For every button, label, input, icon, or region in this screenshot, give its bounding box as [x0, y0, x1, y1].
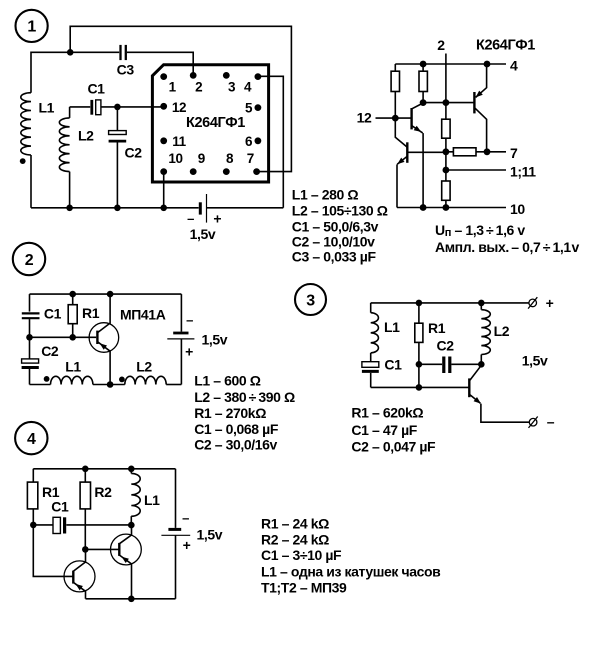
terminal plus c3	[529, 299, 537, 307]
resistor Ra (internal)	[391, 71, 399, 91]
svg-text:2: 2	[195, 79, 202, 94]
node R2 top c4	[82, 466, 89, 473]
inductor L2 bottom wire	[69, 172, 71, 208]
circuit 2 badge	[13, 243, 45, 275]
transistor T2 collector	[119, 525, 131, 544]
svg-text:L1 – 600 Ω: L1 – 600 Ω	[194, 373, 261, 389]
svg-text:+: +	[546, 295, 554, 311]
battery B1 positive plate	[206, 194, 208, 223]
battery c4 negative plate	[168, 528, 181, 531]
node C1 left c4	[30, 522, 37, 529]
bottom rail c2 mid	[93, 384, 125, 386]
capacitor C1 c3 hollow plate	[362, 362, 379, 368]
svg-text:2: 2	[25, 252, 34, 269]
svg-text:1: 1	[27, 19, 36, 36]
svg-text:3: 3	[228, 79, 236, 94]
svg-text:1,5v: 1,5v	[522, 353, 548, 369]
capacitor C1 hollow plate	[96, 100, 101, 115]
transistor T2 emitter	[119, 555, 131, 599]
wire base node Q1/Q3	[423, 102, 474, 104]
inductor L2	[59, 118, 69, 172]
capacitor C1 left wire	[70, 106, 91, 108]
bottom rail c2 right	[166, 384, 181, 386]
top rail c2	[30, 293, 182, 295]
svg-text:R1 – 270kΩ: R1 – 270kΩ	[194, 405, 266, 421]
transistor c3 base bar	[468, 378, 470, 397]
inductor L2 top wire	[69, 107, 71, 118]
capacitor C2 c2 top wire	[29, 337, 31, 359]
wire Q2 base lead	[407, 151, 446, 153]
node rail 1;11	[443, 167, 450, 174]
svg-text:C1 – 0,068 µF: C1 – 0,068 µF	[194, 421, 279, 437]
svg-text:L2: L2	[136, 359, 152, 375]
svg-text:К264ГФ1: К264ГФ1	[186, 115, 245, 131]
inductor L1 c3 top wire	[370, 303, 372, 313]
wire L1 to bottom rail	[30, 155, 32, 208]
base wire c2	[30, 336, 97, 338]
capacitor C3 left wire	[70, 51, 119, 53]
capacitor C2 c2 solid plate	[22, 366, 39, 369]
battery c4 top wire	[175, 469, 177, 528]
node rail7 center	[443, 148, 450, 155]
wire feedback: top node to pin 7	[70, 26, 291, 171]
svg-text:1;11: 1;11	[510, 163, 536, 179]
pin 12	[160, 103, 167, 110]
inductor L1 c2	[51, 376, 93, 384]
transistor T1 collector	[73, 549, 85, 571]
node bottom center	[443, 204, 450, 211]
wire L1 to C1 c3	[370, 353, 372, 362]
wire pin 12	[376, 117, 411, 119]
resistor R1 c2	[68, 305, 77, 324]
node left mid c2	[26, 334, 33, 341]
inductor L2 c3 bottom wire	[480, 355, 482, 365]
svg-text:R1 – 24 kΩ: R1 – 24 kΩ	[261, 516, 329, 532]
svg-text:C2: C2	[41, 343, 59, 359]
svg-text:–: –	[186, 313, 193, 328]
battery c4 positive plate	[161, 534, 190, 536]
node L2/C2/collector c3	[478, 361, 485, 368]
battery B1 negative plate	[199, 202, 202, 214]
capacitor C1 c2 bottom wire	[29, 319, 31, 337]
battery c2 positive plate	[167, 338, 194, 340]
wire pin 4 to bottom rail	[258, 76, 283, 208]
svg-text:R2 – 24 kΩ: R2 – 24 kΩ	[261, 532, 329, 548]
node R1 top c3	[416, 300, 423, 307]
inductor L2 c3 top wire	[480, 303, 482, 310]
svg-text:7: 7	[510, 145, 518, 161]
inductor L2 c3	[481, 310, 490, 355]
inductor L2 c2	[125, 376, 166, 384]
transistor Q3 base bar	[473, 92, 475, 113]
battery c2 bottom wire	[180, 339, 182, 385]
svg-text:3: 3	[306, 292, 315, 309]
transistor Q3 emitter (PNP)	[476, 64, 487, 97]
pin 2	[190, 72, 197, 79]
wire T2 base c4	[85, 548, 119, 550]
resistor R2 c4	[80, 482, 90, 509]
capacitor C1 c2 top wire	[29, 294, 31, 312]
inductor L1 c3	[371, 313, 379, 353]
capacitor C1 c4 right wire	[66, 524, 131, 526]
capacitor C1 solid plate	[90, 100, 93, 115]
transistor Q1 collector	[412, 103, 424, 109]
resistor Rc (internal)	[453, 148, 476, 156]
svg-text:4: 4	[27, 431, 36, 448]
inductor L1 c4 bottom wire	[130, 516, 132, 525]
pin 3	[223, 72, 230, 79]
svg-text:C3: C3	[117, 62, 135, 78]
svg-text:МП41А: МП41А	[120, 306, 166, 322]
terminal minus c3	[529, 418, 537, 426]
capacitor C1 c2 plates	[22, 312, 40, 314]
top rail c3	[371, 302, 529, 304]
inductor L1	[21, 93, 31, 155]
svg-text:C1: C1	[51, 498, 69, 514]
wire pin 2 vertical	[445, 54, 447, 103]
pin 8	[223, 168, 230, 175]
svg-text:C2 – 30,0/16v: C2 – 30,0/16v	[194, 437, 277, 453]
node L2 top c3	[478, 300, 485, 307]
node T2 emitter c4	[128, 596, 135, 603]
battery c2 top wire	[180, 294, 182, 332]
svg-text:C1 – 3÷10 µF: C1 – 3÷10 µF	[261, 547, 342, 563]
svg-text:C3 – 0,033 µF: C3 – 0,033 µF	[292, 249, 377, 265]
svg-text:C2: C2	[437, 338, 455, 354]
circuit 3 badge	[295, 284, 326, 315]
node R1 bottom c2	[69, 334, 76, 341]
bottom rail right	[206, 207, 283, 209]
pin 7	[253, 168, 260, 175]
svg-text:–: –	[182, 511, 189, 526]
capacitor C2 hollow plate	[109, 131, 127, 135]
svg-text:+: +	[185, 344, 193, 360]
wire pin 10 down	[163, 172, 165, 208]
base wire c3	[371, 386, 470, 388]
capacitor C3 plates	[119, 45, 121, 60]
node: pin10 bottom rail	[160, 205, 167, 212]
pin 1	[160, 73, 167, 80]
svg-text:R1: R1	[82, 305, 100, 321]
capacitor C2 c3 left wire	[419, 363, 442, 365]
node emitter bottom c2	[107, 381, 114, 388]
svg-text:10: 10	[168, 151, 182, 166]
pin 4	[255, 73, 262, 80]
svg-text:7: 7	[247, 151, 254, 166]
svg-text:L1: L1	[65, 359, 81, 375]
svg-text:L1: L1	[39, 100, 55, 116]
capacitor C2 top wire	[116, 107, 118, 131]
svg-text:C2 – 0,047 µF: C2 – 0,047 µF	[351, 438, 436, 454]
bottom rail left	[31, 207, 199, 209]
node bottom Q1	[420, 204, 427, 211]
svg-text:5: 5	[245, 101, 253, 116]
wire emitter to terminal c3	[481, 404, 530, 423]
pin 11	[160, 137, 167, 144]
wire Q2 emitter down	[396, 164, 398, 207]
transistor MP41A body	[89, 323, 119, 353]
svg-text:L2: L2	[494, 323, 510, 339]
bottom rail c4	[86, 598, 176, 600]
pin 5	[255, 104, 262, 111]
battery c4 bottom wire	[175, 535, 177, 599]
pin 9	[190, 168, 197, 175]
wire Q1 emitter down	[422, 133, 424, 207]
transistor T1 base bar	[72, 571, 74, 584]
capacitor C1 c4 hollow plate	[53, 517, 60, 533]
svg-text:L1 – 280 Ω: L1 – 280 Ω	[292, 187, 359, 203]
top rail c4	[33, 468, 175, 470]
svg-text:R1 – 620kΩ: R1 – 620kΩ	[351, 404, 423, 420]
resistor R1 c4	[27, 482, 37, 509]
transistor T2 base bar	[118, 543, 120, 556]
svg-text:11: 11	[172, 134, 186, 149]
svg-text:C1: C1	[384, 357, 402, 373]
node: top feedback junction	[67, 49, 74, 56]
rail to pin 1;11	[446, 169, 506, 171]
capacitor C2 bottom wire	[116, 142, 118, 207]
node C1/L1/T2 c4	[128, 522, 135, 529]
resistor Re (internal)	[442, 181, 450, 200]
svg-text:–: –	[547, 414, 555, 430]
svg-text:T1;T2 – МП39: T1;T2 – МП39	[261, 579, 347, 595]
transistor MP41A emitter	[97, 342, 110, 385]
capacitor C1 c3 solid plate	[362, 370, 379, 373]
pin 6	[255, 137, 262, 144]
transistor Q2 emitter	[397, 156, 407, 164]
svg-text:L1: L1	[144, 492, 160, 508]
transistor Q1 emitter	[412, 126, 423, 133]
svg-text:6: 6	[245, 134, 253, 149]
svg-text:C1: C1	[87, 81, 105, 97]
transistor MP41A collector	[97, 294, 110, 333]
svg-text:1,5v: 1,5v	[202, 331, 228, 347]
node R2/T1 collector/T2 base c4	[82, 546, 89, 553]
battery c2 negative plate	[173, 332, 188, 335]
node base wire c3	[416, 384, 423, 391]
node top R1 c2	[69, 291, 76, 298]
capacitor C2 solid plate	[109, 140, 127, 143]
resistor R1 c3	[415, 323, 423, 342]
capacitor C2 c3 plates	[442, 357, 445, 374]
svg-text:C1: C1	[44, 306, 62, 322]
node pin2 base wire	[443, 99, 450, 106]
svg-text:2: 2	[437, 37, 445, 53]
svg-text:4: 4	[510, 57, 518, 73]
svg-text:R2: R2	[94, 484, 112, 500]
transistor c3 collector	[469, 365, 481, 381]
svg-text:12: 12	[357, 110, 372, 126]
svg-text:1: 1	[169, 79, 177, 94]
node pin 12	[392, 115, 399, 122]
node: C2 bottom rail	[114, 205, 121, 212]
svg-text:1,5v: 1,5v	[190, 226, 216, 242]
pin 10	[160, 168, 167, 175]
wire center pin2 branch with resistors	[445, 103, 447, 208]
bottom rail c2 left	[30, 384, 51, 386]
transistor Q2 base bar	[406, 142, 408, 163]
top rail to pin 4	[395, 63, 506, 65]
transistor c3 emitter	[469, 394, 480, 403]
transistor Q3 collector	[474, 108, 486, 152]
svg-text:4: 4	[244, 79, 252, 94]
capacitor C2 c2 bottom wire	[29, 369, 31, 385]
svg-text:L2 – 105÷130 Ω: L2 – 105÷130 Ω	[292, 202, 388, 218]
svg-text:L2 – 380 ÷ 390 Ω: L2 – 380 ÷ 390 Ω	[194, 389, 295, 405]
capacitor C1 c3 bottom wire	[370, 373, 372, 388]
svg-text:C2 – 10,0/10v: C2 – 10,0/10v	[292, 233, 375, 249]
rail to pin 7 with resistor Rc	[446, 151, 506, 153]
node rail7 right	[484, 148, 491, 155]
svg-text:12: 12	[172, 100, 186, 115]
capacitor C1 c4 solid plate	[63, 517, 66, 533]
svg-text:C1 – 50,0/6,3v: C1 – 50,0/6,3v	[292, 218, 379, 234]
capacitor C3 right wire + pin 2 drop	[127, 52, 193, 75]
transistor Q2 collector	[395, 118, 407, 147]
node: C1/C2/pin12	[114, 104, 121, 111]
wire left down to T1 base c4	[33, 525, 73, 577]
transistor T1 emitter	[73, 582, 85, 599]
svg-text:9: 9	[198, 151, 205, 166]
circuit 4 badge	[15, 422, 47, 454]
capacitor C2 c3 right wire	[451, 363, 481, 365]
resistor Rd (internal)	[442, 119, 450, 138]
svg-text:Ампл. вых. – 0,7 ÷ 1,1 v: Ампл. вых. – 0,7 ÷ 1,1 v	[435, 239, 579, 255]
node R1/C2 c3	[416, 361, 423, 368]
L1 c2 winding dot	[44, 376, 50, 382]
capacitor C1 c4 left wire	[33, 524, 53, 526]
capacitor C2 c2 hollow plate	[22, 359, 39, 363]
svg-text:C2: C2	[125, 145, 143, 161]
svg-text:C1 – 47 µF: C1 – 47 µF	[351, 422, 417, 438]
svg-text:8: 8	[226, 151, 234, 166]
svg-text:L1: L1	[384, 319, 400, 335]
transistor T2 body	[111, 534, 142, 565]
svg-text:1,5v: 1,5v	[197, 527, 223, 543]
transistor Q1 base bar	[410, 108, 412, 129]
L2 c2 winding dot	[119, 377, 125, 383]
node top collector c2	[107, 291, 114, 298]
svg-text:+: +	[183, 537, 191, 553]
svg-text:+: +	[213, 211, 221, 227]
transistor MP41A base bar	[96, 331, 98, 344]
capacitor C1 right wire to pin 12	[101, 106, 164, 108]
node L1 top c4	[128, 466, 135, 473]
IC U1 K264GF1 body	[152, 65, 268, 182]
wire top node to L1	[31, 52, 70, 92]
svg-text:К264ГФ1: К264ГФ1	[476, 38, 535, 54]
svg-text:L2: L2	[78, 128, 94, 144]
resistor Rb (internal)	[419, 71, 427, 91]
svg-text:10: 10	[510, 201, 525, 217]
node Rb bottom	[420, 99, 427, 106]
circuit 1 badge	[16, 10, 48, 42]
node rail top Rb	[420, 61, 427, 68]
L1 winding dot	[20, 158, 26, 164]
node: L2 bottom rail	[66, 205, 73, 212]
transistor T1 body	[64, 561, 95, 592]
svg-text:L1 – одна из катушек часов: L1 – одна из катушек часов	[261, 563, 441, 579]
inductor L1 c4	[131, 473, 140, 516]
inductor L1 c4 top wire	[130, 469, 132, 474]
svg-text:R1: R1	[428, 320, 446, 336]
svg-text:–: –	[187, 211, 194, 226]
bottom rail to pin 10	[397, 207, 506, 209]
node rail top right	[484, 61, 491, 68]
